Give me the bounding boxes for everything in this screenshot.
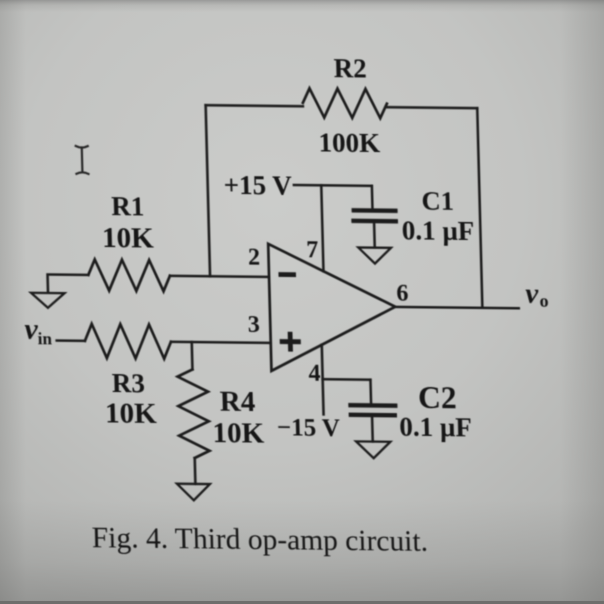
ground (input, below R1 left lead) <box>31 293 65 308</box>
svg-text:0.1 µF: 0.1 µF <box>399 412 472 443</box>
wire: vin lead <box>57 339 85 342</box>
svg-text:2: 2 <box>248 245 261 271</box>
resistor R1 <box>88 259 170 291</box>
wire: +15V rail <box>294 184 372 187</box>
svg-text:6: 6 <box>396 281 409 307</box>
ground (below C2) <box>356 441 391 458</box>
wire: feedback left vertical <box>206 105 210 276</box>
svg-text:10K: 10K <box>105 398 158 431</box>
svg-text:10K: 10K <box>102 222 155 255</box>
svg-text:v: v <box>525 278 540 310</box>
wire: pin 7 supply lead <box>321 185 323 271</box>
resistor R2 <box>302 88 387 118</box>
svg-text:4: 4 <box>308 361 321 387</box>
svg-text:R3: R3 <box>111 368 145 398</box>
svg-text:3: 3 <box>247 312 260 338</box>
wire: R1 input lead and corner <box>48 274 89 292</box>
svg-text:R1: R1 <box>111 191 145 221</box>
wire: feedback right vertical <box>477 108 482 308</box>
svg-text:10K: 10K <box>212 417 265 450</box>
op-amp plus sign <box>280 339 301 344</box>
wire: feedback top rail right segment <box>387 106 477 109</box>
wire: C2 bottom lead <box>371 417 374 442</box>
svg-text:in: in <box>37 329 52 348</box>
svg-text:C1: C1 <box>421 186 454 216</box>
svg-text:−15 V: −15 V <box>277 414 341 442</box>
svg-text:+15 V: +15 V <box>223 170 292 201</box>
capacitor C2 <box>351 403 396 408</box>
resistor R4 <box>177 369 209 458</box>
wire: output pin 6 <box>395 307 519 308</box>
ground (below R4) <box>177 484 210 501</box>
wire: R4 top lead from node <box>190 342 193 369</box>
wire: C2 branch horizontal <box>323 378 371 381</box>
wire: R4 bottom lead <box>193 458 196 484</box>
svg-text:0.1 µF: 0.1 µF <box>401 215 474 246</box>
svg-text:R4: R4 <box>219 386 255 418</box>
wire: feedback top rail left segment <box>206 105 303 106</box>
op-amp minus sign <box>278 272 296 277</box>
svg-text:Fig. 4. Third op-amp circuit.: Fig. 4. Third op-amp circuit. <box>91 522 428 558</box>
svg-text:R2: R2 <box>333 53 367 83</box>
wire: pin 3 non-inverting input <box>171 342 271 343</box>
wire: C1 bottom lead <box>373 223 376 247</box>
wire: pin 4 supply lead <box>322 345 324 415</box>
svg-text:100K: 100K <box>318 127 380 158</box>
svg-text:o: o <box>539 291 549 311</box>
ground (below C1) <box>358 247 391 263</box>
wire: C2 top lead <box>369 380 372 404</box>
svg-text:7: 7 <box>306 237 319 263</box>
resistor R3 <box>85 324 172 359</box>
svg-text:C2: C2 <box>418 380 457 415</box>
wire: pin 2 inverting input <box>170 276 269 277</box>
op-amp U1 <box>268 244 397 372</box>
I-beam cursor <box>76 146 89 174</box>
wire: C1 top lead <box>371 186 374 209</box>
capacitor C1 <box>354 208 396 213</box>
